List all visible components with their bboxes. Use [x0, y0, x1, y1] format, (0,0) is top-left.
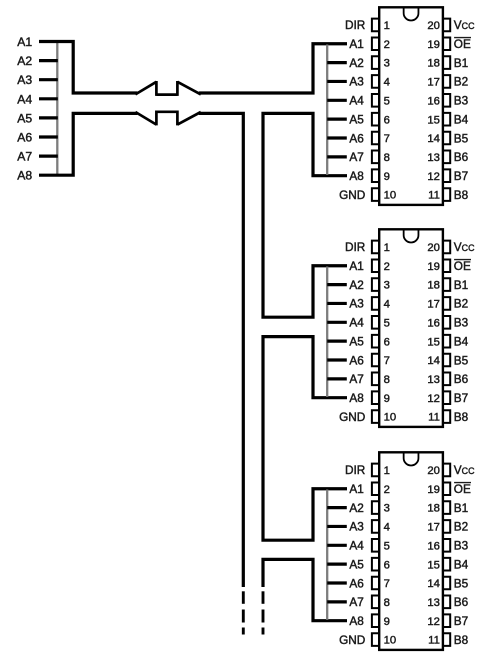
U3 pin 8 bracket: [372, 596, 378, 609]
svg-text:A2: A2: [349, 56, 363, 70]
svg-text:A8: A8: [349, 391, 364, 405]
svg-text:B3: B3: [454, 94, 469, 108]
svg-text:A6: A6: [349, 353, 364, 367]
svg-text:B1: B1: [454, 278, 468, 292]
U2 pin 8 bracket: [372, 373, 378, 386]
U1 pin 9 bracket: [372, 169, 378, 182]
wire stub U2 A7: [327, 377, 347, 380]
wire stub U2 A6: [327, 358, 347, 361]
wire A8 to lower branch: [39, 113, 137, 175]
U2 pin 13 bracket: [444, 373, 450, 386]
U1 pin 17 bracket: [444, 75, 450, 88]
svg-text:11: 11: [428, 190, 440, 202]
svg-text:A5: A5: [349, 334, 364, 348]
svg-text:A8: A8: [349, 169, 364, 183]
svg-text:B7: B7: [454, 614, 468, 628]
svg-text:10: 10: [384, 190, 397, 202]
svg-text:9: 9: [384, 393, 390, 405]
U2 pin 20 bracket: [444, 241, 450, 254]
svg-text:B4: B4: [454, 334, 469, 348]
svg-text:DIR: DIR: [345, 240, 365, 254]
U1 OE active-low overline: [454, 37, 471, 39]
svg-text:14: 14: [427, 578, 440, 590]
svg-text:A1: A1: [349, 259, 363, 273]
wire stub U1 A4: [327, 99, 347, 102]
U2 pin 14 bracket: [444, 354, 450, 367]
svg-text:6: 6: [384, 114, 390, 126]
svg-text:19: 19: [427, 39, 440, 51]
svg-text:16: 16: [427, 540, 440, 552]
U3 pin 3 bracket: [372, 501, 378, 514]
U2 pin 6 bracket: [372, 335, 378, 348]
svg-text:2: 2: [384, 39, 390, 51]
wire stub U3 A2: [327, 506, 347, 509]
U2 pin 17 bracket: [444, 297, 450, 310]
wire stub U2 A3: [327, 302, 347, 305]
U2 pin 16 bracket: [444, 316, 450, 329]
svg-text:12: 12: [427, 171, 440, 183]
wire dashed continuation column 1: [242, 591, 245, 604]
svg-text:15: 15: [427, 559, 440, 571]
U3 pin 13 bracket: [444, 596, 450, 609]
wire stub U2 A2: [327, 283, 347, 286]
svg-text:B3: B3: [454, 539, 469, 553]
svg-text:4: 4: [384, 77, 390, 89]
svg-text:14: 14: [427, 133, 440, 145]
svg-text:B2: B2: [454, 297, 468, 311]
U2 pin 9 bracket: [372, 391, 378, 404]
svg-text:B4: B4: [454, 557, 469, 571]
svg-text:2: 2: [384, 484, 390, 496]
U1 pin 20 bracket: [444, 19, 450, 32]
svg-text:14: 14: [427, 355, 440, 367]
svg-text:20: 20: [427, 20, 440, 32]
svg-text:VCC: VCC: [454, 18, 475, 32]
svg-text:4: 4: [384, 299, 390, 311]
svg-text:A1: A1: [349, 37, 363, 51]
U1 pin 10 bracket: [372, 188, 378, 201]
U1 pin 16 bracket: [444, 94, 450, 107]
svg-text:5: 5: [384, 540, 390, 552]
svg-text:A8: A8: [349, 614, 364, 628]
svg-text:A2: A2: [17, 54, 32, 68]
U3 pin 2 bracket: [372, 482, 378, 495]
U2 OE active-low overline: [454, 259, 471, 261]
svg-text:A4: A4: [349, 94, 364, 108]
svg-text:A3: A3: [349, 297, 364, 311]
wire stub U1 A5: [327, 118, 347, 121]
U2 pin 7 bracket: [372, 354, 378, 367]
U2 pin 2 bracket: [372, 259, 378, 272]
transceiver U2 body: [379, 229, 443, 427]
svg-text:17: 17: [427, 77, 440, 89]
svg-text:12: 12: [427, 393, 440, 405]
svg-text:B2: B2: [454, 520, 468, 534]
U2 pin 19 bracket: [444, 259, 450, 272]
wire stub U1 A7: [327, 155, 347, 158]
U1 pin 14 bracket: [444, 132, 450, 145]
svg-text:GND: GND: [339, 188, 365, 202]
svg-text:B1: B1: [454, 501, 468, 515]
transceiver U2 A-side bus (gray): [326, 267, 328, 397]
svg-text:A8: A8: [17, 169, 32, 183]
wire stub U1 A3: [327, 80, 347, 83]
U2 pin 5 bracket: [372, 316, 378, 329]
U3 pin 11 bracket: [444, 633, 450, 646]
svg-text:A4: A4: [349, 539, 364, 553]
wire stub U2 A4: [327, 321, 347, 324]
svg-text:7: 7: [384, 578, 390, 590]
svg-text:1: 1: [384, 20, 390, 32]
svg-text:9: 9: [384, 616, 390, 628]
svg-text:B3: B3: [454, 316, 469, 330]
U3 pin 5 bracket: [372, 539, 378, 552]
wire stub A6: [39, 135, 58, 138]
wire U2 A-bus lower section to column 2 down to U3 upper section: [263, 337, 347, 541]
U3 pin 19 bracket: [444, 482, 450, 495]
svg-text:8: 8: [384, 152, 390, 164]
svg-text:3: 3: [384, 503, 390, 515]
U1 pin 19 bracket: [444, 37, 450, 50]
wire dashed continuation column 2: [262, 628, 265, 635]
wire stub U1 A6: [327, 136, 347, 139]
svg-text:A2: A2: [349, 501, 363, 515]
svg-text:13: 13: [427, 597, 440, 609]
svg-text:16: 16: [427, 317, 440, 329]
U3 pin 7 bracket: [372, 577, 378, 590]
svg-text:5: 5: [384, 317, 390, 329]
svg-text:6: 6: [384, 559, 390, 571]
U3 pin-1 index notch: [404, 453, 419, 465]
U3 pin 17 bracket: [444, 520, 450, 533]
U1 pin 18 bracket: [444, 56, 450, 69]
svg-text:11: 11: [428, 635, 440, 647]
svg-text:3: 3: [384, 58, 390, 70]
svg-text:A4: A4: [17, 92, 32, 106]
svg-text:8: 8: [384, 374, 390, 386]
U2 pin 11 bracket: [444, 410, 450, 423]
wire U1 A-bus lower section to column 2 down to U2 upper section: [263, 113, 347, 317]
svg-text:A5: A5: [17, 111, 32, 125]
svg-text:B8: B8: [454, 410, 469, 424]
U1 pin-1 index notch: [404, 8, 419, 20]
U3 OE active-low overline: [454, 482, 471, 484]
svg-text:11: 11: [428, 412, 440, 424]
svg-text:A6: A6: [17, 131, 32, 145]
svg-text:A6: A6: [349, 576, 364, 590]
svg-text:B8: B8: [454, 188, 469, 202]
U2 pin 18 bracket: [444, 278, 450, 291]
svg-text:B6: B6: [454, 372, 469, 386]
svg-text:B8: B8: [454, 633, 469, 647]
svg-text:B5: B5: [454, 131, 469, 145]
svg-text:OE: OE: [454, 37, 471, 51]
svg-text:DIR: DIR: [345, 463, 365, 477]
wire stub A7: [39, 155, 58, 158]
U3 pin 9 bracket: [372, 614, 378, 627]
svg-text:B6: B6: [454, 595, 469, 609]
svg-text:A7: A7: [349, 595, 363, 609]
U2 pin 12 bracket: [444, 391, 450, 404]
transceiver U3 A-side bus (gray): [326, 490, 328, 620]
svg-text:A7: A7: [349, 150, 363, 164]
U1 pin 2 bracket: [372, 37, 378, 50]
U3 pin 1 bracket: [372, 464, 378, 477]
wire dashed continuation column 2: [262, 591, 265, 604]
svg-text:7: 7: [384, 355, 390, 367]
svg-text:B4: B4: [454, 112, 469, 126]
svg-text:2: 2: [384, 261, 390, 273]
U3 pin 16 bracket: [444, 539, 450, 552]
svg-text:A3: A3: [17, 73, 32, 87]
svg-text:B6: B6: [454, 150, 469, 164]
wire stub A5: [39, 116, 58, 119]
svg-text:VCC: VCC: [454, 240, 475, 254]
U1 pin 8 bracket: [372, 151, 378, 164]
svg-text:1: 1: [384, 242, 390, 254]
svg-text:A1: A1: [17, 35, 32, 49]
svg-text:18: 18: [427, 503, 440, 515]
U2 pin 1 bracket: [372, 241, 378, 254]
svg-text:20: 20: [427, 465, 440, 477]
U1 pin 12 bracket: [444, 169, 450, 182]
svg-text:13: 13: [427, 152, 440, 164]
svg-text:B2: B2: [454, 75, 468, 89]
wire stub U3 A5: [327, 563, 347, 566]
wire stub U2 A5: [327, 340, 347, 343]
U1 pin 1 bracket: [372, 19, 378, 32]
wire stub U1 A2: [327, 61, 347, 64]
svg-text:A5: A5: [349, 557, 364, 571]
U2 pin 3 bracket: [372, 278, 378, 291]
U3 pin 20 bracket: [444, 464, 450, 477]
wire dashed continuation column 1: [242, 610, 245, 623]
wire stub U3 A6: [327, 581, 347, 584]
svg-text:OE: OE: [454, 259, 471, 273]
svg-text:B5: B5: [454, 353, 469, 367]
svg-text:20: 20: [427, 242, 440, 254]
wire lower branch to bus column 1: [199, 113, 244, 587]
svg-text:17: 17: [427, 299, 440, 311]
svg-text:10: 10: [384, 412, 397, 424]
svg-text:B7: B7: [454, 391, 468, 405]
svg-text:A5: A5: [349, 112, 364, 126]
svg-text:A7: A7: [349, 372, 363, 386]
wire stub A4: [39, 97, 58, 100]
U1 pin 5 bracket: [372, 94, 378, 107]
U3 pin 10 bracket: [372, 633, 378, 646]
svg-text:9: 9: [384, 171, 390, 183]
svg-text:A4: A4: [349, 316, 364, 330]
U3 pin 12 bracket: [444, 614, 450, 627]
U2 pin 4 bracket: [372, 297, 378, 310]
U1 pin 7 bracket: [372, 132, 378, 145]
svg-text:B7: B7: [454, 169, 468, 183]
U3 pin 4 bracket: [372, 520, 378, 533]
svg-text:12: 12: [427, 616, 440, 628]
svg-text:10: 10: [384, 635, 397, 647]
U2 pin 10 bracket: [372, 410, 378, 423]
transceiver U1 body: [379, 7, 443, 205]
svg-text:A1: A1: [349, 482, 363, 496]
svg-text:A3: A3: [349, 520, 364, 534]
U3 pin 14 bracket: [444, 577, 450, 590]
svg-text:8: 8: [384, 597, 390, 609]
svg-text:A2: A2: [349, 278, 363, 292]
transceiver U3 body: [379, 452, 443, 650]
svg-text:19: 19: [427, 484, 440, 496]
svg-text:16: 16: [427, 95, 440, 107]
svg-text:3: 3: [384, 280, 390, 292]
svg-text:A3: A3: [349, 75, 364, 89]
U1 pin 3 bracket: [372, 56, 378, 69]
svg-text:1: 1: [384, 465, 390, 477]
wire U3 A-bus lower section to column 2 continuation: [263, 559, 347, 620]
U1 pin 11 bracket: [444, 188, 450, 201]
wire A1 to upper branch: [39, 42, 137, 94]
svg-text:DIR: DIR: [345, 18, 365, 32]
wire stub A2: [39, 59, 58, 62]
svg-text:GND: GND: [339, 633, 365, 647]
svg-text:OE: OE: [454, 482, 471, 496]
wire dashed continuation column 2: [262, 610, 265, 623]
U3 pin 18 bracket: [444, 501, 450, 514]
svg-text:15: 15: [427, 336, 440, 348]
bus break symbol (upper wire): [135, 81, 200, 96]
svg-text:7: 7: [384, 133, 390, 145]
svg-text:15: 15: [427, 114, 440, 126]
U2 pin 15 bracket: [444, 335, 450, 348]
wire dashed continuation column 1: [242, 628, 245, 635]
svg-text:6: 6: [384, 336, 390, 348]
svg-text:B1: B1: [454, 56, 468, 70]
svg-text:GND: GND: [339, 410, 365, 424]
svg-text:B5: B5: [454, 576, 469, 590]
wire stub U3 A3: [327, 525, 347, 528]
U1 pin 15 bracket: [444, 113, 450, 126]
U1 pin 4 bracket: [372, 75, 378, 88]
wire stub A3: [39, 78, 58, 81]
svg-text:17: 17: [427, 522, 440, 534]
svg-text:18: 18: [427, 58, 440, 70]
transceiver U1 A-side bus (gray): [326, 45, 328, 175]
svg-text:13: 13: [427, 374, 440, 386]
wire upper branch to U1 A-bus (A1-A4 section): [199, 44, 347, 93]
U3 pin 15 bracket: [444, 558, 450, 571]
svg-text:A6: A6: [349, 131, 364, 145]
U1 pin 6 bracket: [372, 113, 378, 126]
bus break symbol (lower wire): [135, 111, 200, 126]
U2 pin-1 index notch: [404, 230, 419, 242]
svg-text:5: 5: [384, 95, 390, 107]
connector bus (gray): [56, 42, 58, 174]
svg-text:19: 19: [427, 261, 440, 273]
svg-text:18: 18: [427, 280, 440, 292]
svg-text:VCC: VCC: [454, 463, 475, 477]
U1 pin 13 bracket: [444, 151, 450, 164]
svg-text:A7: A7: [17, 150, 32, 164]
svg-text:4: 4: [384, 522, 390, 534]
wire stub U3 A7: [327, 600, 347, 603]
U3 pin 6 bracket: [372, 558, 378, 571]
wire stub U3 A4: [327, 544, 347, 547]
